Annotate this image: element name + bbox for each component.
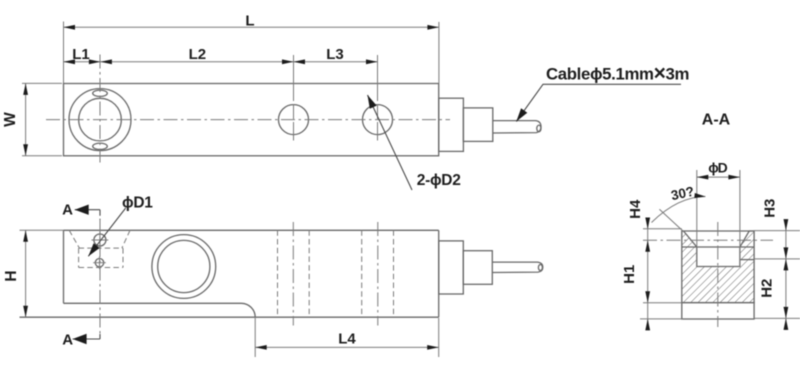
svg-text:2-ϕD2: 2-ϕD2 <box>417 172 461 189</box>
svg-text:Cableϕ5.1mm×3m: Cableϕ5.1mm×3m <box>546 62 689 85</box>
svg-text:A: A <box>62 332 73 349</box>
svg-text:L4: L4 <box>338 331 356 348</box>
svg-text:L3: L3 <box>326 46 344 63</box>
svg-text:L2: L2 <box>189 46 207 63</box>
svg-text:A: A <box>62 201 73 218</box>
svg-text:A-A: A-A <box>702 111 731 128</box>
svg-text:H1: H1 <box>621 265 638 284</box>
svg-text:H4: H4 <box>627 199 644 219</box>
svg-text:H2: H2 <box>758 279 775 298</box>
svg-text:L: L <box>245 13 254 30</box>
svg-text:H: H <box>3 270 20 281</box>
svg-text:ϕD: ϕD <box>708 160 727 176</box>
svg-text:ϕD1: ϕD1 <box>122 195 153 212</box>
svg-text:L1: L1 <box>72 46 90 63</box>
svg-text:H3: H3 <box>762 199 779 218</box>
svg-text:W: W <box>2 112 19 127</box>
